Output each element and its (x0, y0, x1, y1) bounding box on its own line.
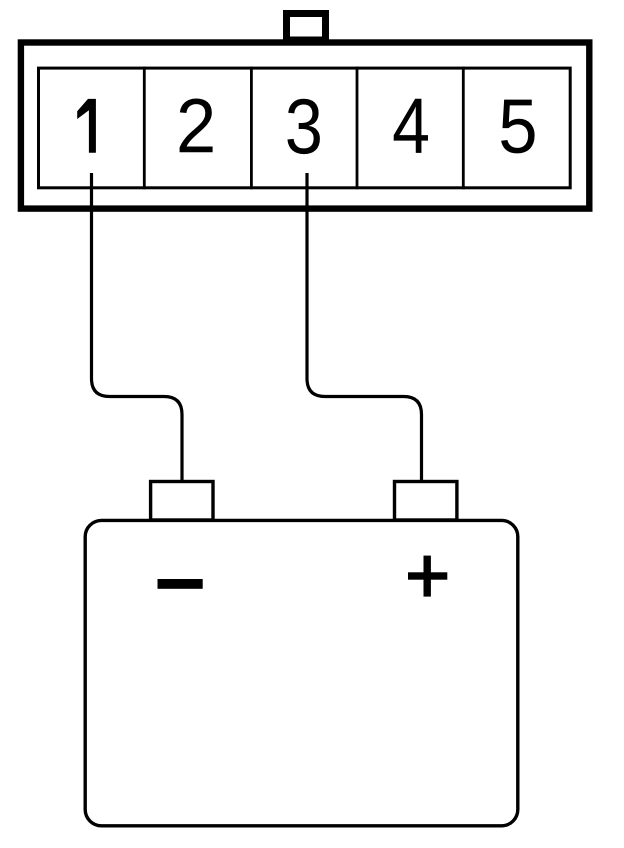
pin divider 1-2 (143, 67, 146, 190)
connector key tab (287, 14, 326, 41)
negative polarity symbol (158, 579, 203, 589)
pin 4 label (394, 99, 428, 153)
wire pin3 to battery positive (307, 173, 422, 480)
wire pin1 to battery negative (92, 173, 183, 480)
pin divider 4-5 (462, 67, 465, 190)
pin divider 3-4 (356, 67, 359, 190)
pin 3 label (287, 99, 320, 154)
pin housing inner rectangle (39, 68, 571, 188)
pin 1 label (77, 99, 96, 153)
pin divider 2-3 (250, 67, 253, 190)
pin 2 label (180, 99, 213, 153)
battery negative terminal post (151, 482, 213, 521)
positive polarity symbol (408, 572, 447, 579)
connector J1 outer body (21, 43, 589, 209)
battery positive terminal post (395, 482, 457, 521)
battery body (85, 520, 518, 825)
pin 5 label (501, 100, 534, 154)
